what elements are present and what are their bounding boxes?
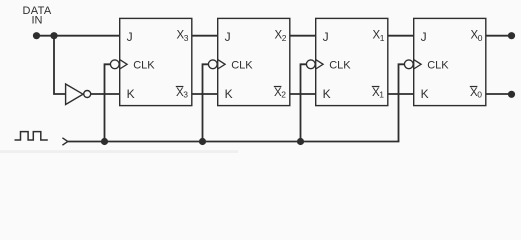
FF1 clock wire from bubble to bus: [105, 64, 111, 141]
flip-flop FF2 box: [218, 18, 290, 105]
clock waveform symbol: [15, 132, 48, 140]
wire X0 to output terminal: [486, 35, 510, 37]
wire X0-bar to output terminal: [486, 93, 510, 95]
wire X3-bar to K of FF2: [192, 93, 218, 95]
svg-text:2: 2: [282, 33, 287, 43]
FF3 clock wire from bubble to bus: [301, 64, 307, 141]
flip-flop FF3 box: [316, 18, 388, 105]
FF3 CLK bubble: [306, 60, 315, 69]
svg-text:K: K: [127, 87, 135, 101]
svg-text:1: 1: [379, 90, 384, 100]
wire X3 to J of FF2: [192, 35, 218, 37]
clock input arrow: [62, 138, 67, 145]
wire inverter output to K of FF1: [91, 93, 120, 95]
svg-text:2: 2: [281, 90, 286, 100]
junction clock bus FF3: [297, 138, 304, 145]
svg-text:1: 1: [380, 33, 385, 43]
svg-text:J: J: [421, 30, 427, 44]
FF3 edge-trigger symbol: [316, 60, 323, 69]
svg-text:0: 0: [478, 33, 483, 43]
svg-text:0: 0: [477, 90, 482, 100]
node X0 output terminal: [508, 32, 515, 39]
svg-text:J: J: [225, 30, 231, 44]
svg-text:J: J: [323, 30, 329, 44]
wire clock bus: [68, 141, 400, 143]
junction clock bus FF2: [199, 138, 206, 145]
flip-flop FF4 box: [414, 18, 486, 105]
wire X1 to J of FF4: [388, 35, 414, 37]
flip-flop FF1 box: [120, 18, 192, 105]
junction clock bus FF1: [101, 138, 108, 145]
svg-text:3: 3: [183, 90, 188, 100]
wire X1-bar to K of FF4: [388, 93, 414, 95]
svg-text:3: 3: [184, 33, 189, 43]
svg-text:CLK: CLK: [329, 60, 351, 72]
svg-text:K: K: [421, 87, 429, 101]
FF2 edge-trigger symbol: [218, 60, 225, 69]
wire DATA IN to J of FF1: [37, 35, 120, 37]
inverter U5: [66, 84, 91, 105]
svg-text:K: K: [225, 87, 233, 101]
svg-text:IN: IN: [32, 15, 43, 27]
svg-text:K: K: [323, 87, 331, 101]
junction data branch: [50, 32, 57, 39]
wire X2 to J of FF3: [290, 35, 316, 37]
svg-text:CLK: CLK: [231, 60, 253, 72]
wire X2-bar to K of FF3: [290, 93, 316, 95]
scan shadow bottom: [0, 150, 238, 153]
svg-text:CLK: CLK: [427, 60, 449, 72]
svg-text:J: J: [127, 30, 133, 44]
FF2 clock wire from bubble to bus: [203, 64, 209, 141]
FF4 clock wire from bubble to bus: [399, 64, 405, 141]
FF1 CLK bubble: [110, 60, 119, 69]
FF4 CLK bubble: [404, 60, 413, 69]
label DATA IN: [22, 5, 51, 27]
svg-text:CLK: CLK: [133, 60, 155, 72]
FF4 edge-trigger symbol: [414, 60, 421, 69]
node X0-bar output terminal: [508, 91, 515, 98]
FF1 edge-trigger symbol: [120, 60, 127, 69]
wire branch down to inverter input: [54, 36, 66, 94]
FF2 CLK bubble: [208, 60, 217, 69]
node DATA IN terminal: [33, 32, 40, 39]
